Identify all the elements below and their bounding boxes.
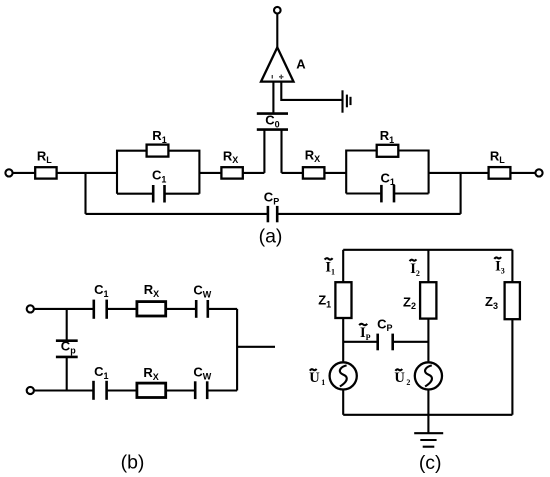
svg-text:(c): (c) <box>419 452 442 474</box>
svg-text:A: A <box>296 57 306 72</box>
svg-text:(b): (b) <box>121 452 145 474</box>
svg-text:(a): (a) <box>259 226 283 248</box>
